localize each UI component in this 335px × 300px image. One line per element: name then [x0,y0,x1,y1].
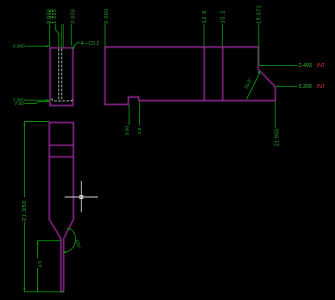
svg-text:0.000: 0.000 [104,9,110,24]
dim line 4.5 lower [37,268,39,292]
leader 7.50 jogged [24,102,50,104]
crosshair horizontal [65,196,98,198]
arrow 7.000 [46,99,50,101]
arrow arc top [67,228,70,230]
dim line 21.950 left lower [23,222,25,292]
svg-text:INT: INT [317,63,325,69]
svg-text:15.2: 15.2 [220,10,226,23]
main part outline (top-right view) with chamfer [105,47,275,105]
svg-text:19.671: 19.671 [256,5,262,24]
ext line 1.625 b [62,24,64,48]
svg-text:3.00: 3.00 [125,126,131,136]
crosshair cursor [65,181,98,212]
leader 4-C0.2 [72,43,80,48]
leader 35.0 [246,72,260,100]
arrow 2.493 [259,65,262,67]
arrow 0.000 left [46,45,50,47]
slot-feature rectangle (top-left front view) [50,48,73,106]
svg-text:INT: INT [317,84,325,90]
feature line x=204 [203,47,205,101]
svg-text:21.950: 21.950 [22,200,28,221]
ext 4.5 top tick [38,240,61,242]
ext line 1.375 (jogged) [55,24,59,48]
arrow 4.5 top [37,241,39,245]
ext 21.950 bottom tick [24,291,63,293]
leader 2.493 [259,64,297,66]
svg-text:12.8: 12.8 [202,10,208,23]
svg-text:21.950: 21.950 [275,128,281,146]
arrow 5.209 [276,85,279,87]
svg-text:4.5: 4.5 [137,127,143,134]
svg-text:3.000: 3.000 [70,9,76,24]
arrow arc bottom [63,251,66,254]
ext line 0.000 top [49,24,51,47]
svg-text:2.493: 2.493 [299,63,312,69]
svg-text:0.000: 0.000 [13,43,25,49]
green arrowheads [23,45,278,291]
feature line y=157 [49,156,73,158]
magenta part geometry [49,47,275,292]
leader 5.209 [276,85,298,87]
svg-text:7.50: 7.50 [15,101,25,107]
ext line 0.000 main [104,24,106,47]
ext line 1.625 a [61,24,63,48]
arrow 4-C0.2 [72,47,75,49]
angle arc [63,228,75,252]
svg-text:5.209: 5.209 [299,84,312,90]
leader 7.000 [25,99,50,101]
green dimension lines [24,23,297,291]
ext line 21.950 right [274,101,276,128]
leader 0.000 left [25,45,49,47]
arrow 21.950 bottom [23,288,25,292]
ext line 4.5 top [139,101,141,125]
pickbox [80,196,83,199]
ext 21.950 top tick [24,121,49,123]
dim line 4.5 upper [37,241,39,259]
ext line 15.2 [221,23,223,46]
dashed slot edge right [61,49,63,100]
arrow 21.950 top [23,122,25,126]
hidden (dashed) slot lines [52,49,73,101]
ext line 19.671 [258,24,260,65]
dashed slot bottom [52,98,73,101]
crosshair vertical [80,181,82,212]
arrow 4.5 bottom [37,288,39,292]
svg-text:4.5: 4.5 [38,260,44,267]
ext line 3.000 [70,24,72,46]
dashed slot edge left [58,49,60,100]
ext line 12.8 [203,23,205,46]
feature line y=145 [49,144,73,146]
arrow 35.0 [258,71,261,75]
red INT labels [317,63,325,90]
svg-text:4—C0.2: 4—C0.2 [81,41,100,47]
green dimension text [13,5,312,267]
svg-text:1.625: 1.625 [52,9,58,24]
ext line 3.00 [128,105,130,126]
dim line 21.950 left upper [23,122,25,197]
lower-left part outline (side view, tapered tip) [49,123,73,292]
feature line x=223 [222,47,224,101]
